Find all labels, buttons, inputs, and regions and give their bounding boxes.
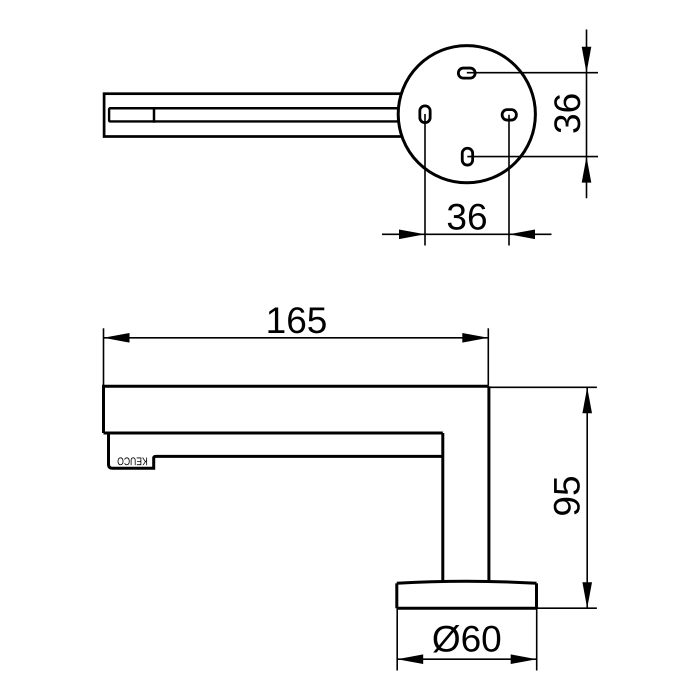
svg-text:Ø60: Ø60 bbox=[432, 619, 502, 660]
svg-text:165: 165 bbox=[266, 300, 328, 341]
svg-text:36: 36 bbox=[446, 196, 487, 237]
svg-text:KEUCO: KEUCO bbox=[117, 454, 148, 466]
svg-text:36: 36 bbox=[547, 93, 588, 134]
svg-text:95: 95 bbox=[547, 475, 588, 516]
